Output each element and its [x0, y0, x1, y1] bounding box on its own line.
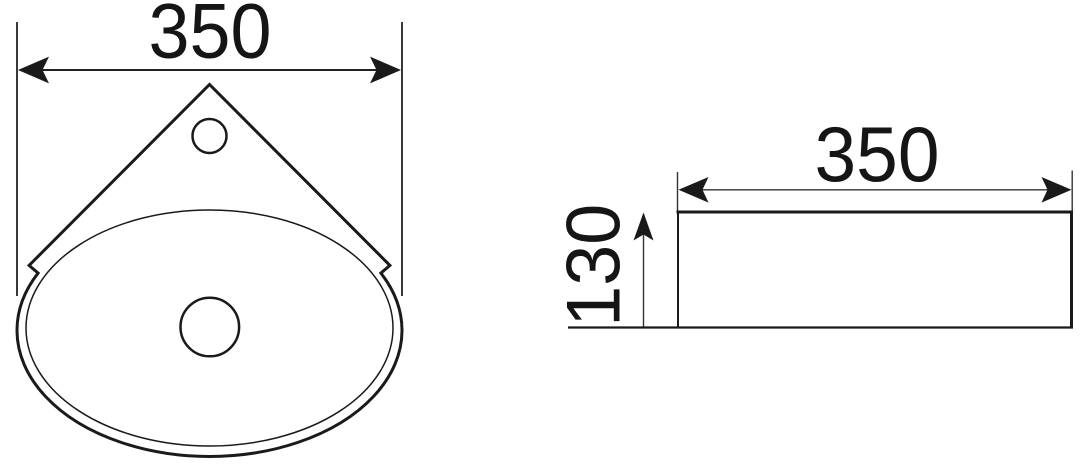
faucet hole [193, 119, 227, 153]
arrowhead right (top view) [370, 57, 401, 84]
arrowhead left (side view) [679, 177, 709, 203]
basin inner rim ellipse [26, 210, 393, 446]
extension line left (top view) [16, 22, 18, 296]
extension line above top-right corner [1071, 171, 1073, 213]
tank left edge [677, 211, 679, 328]
arrowhead right (side view) [1042, 177, 1072, 203]
svg-text:350: 350 [815, 112, 940, 198]
extension line above top-left corner [677, 172, 679, 212]
ground line [568, 326, 1073, 328]
dimension line 350 (side view) [700, 189, 1050, 191]
extension line right (top view) [401, 22, 403, 296]
svg-text:350: 350 [149, 0, 272, 75]
tank top edge [677, 211, 1074, 214]
svg-text:130: 130 [552, 204, 637, 327]
arrowhead left (top view) [18, 57, 49, 84]
dimension line 350 (top view) [42, 69, 377, 71]
basin outer outline: triangle + notches + outer ellipse arc [17, 85, 402, 457]
drain hole [181, 298, 240, 357]
tank right edge [1070, 211, 1073, 328]
dimension line 130 vertical [643, 214, 645, 328]
arrowhead up (130) [634, 213, 654, 241]
